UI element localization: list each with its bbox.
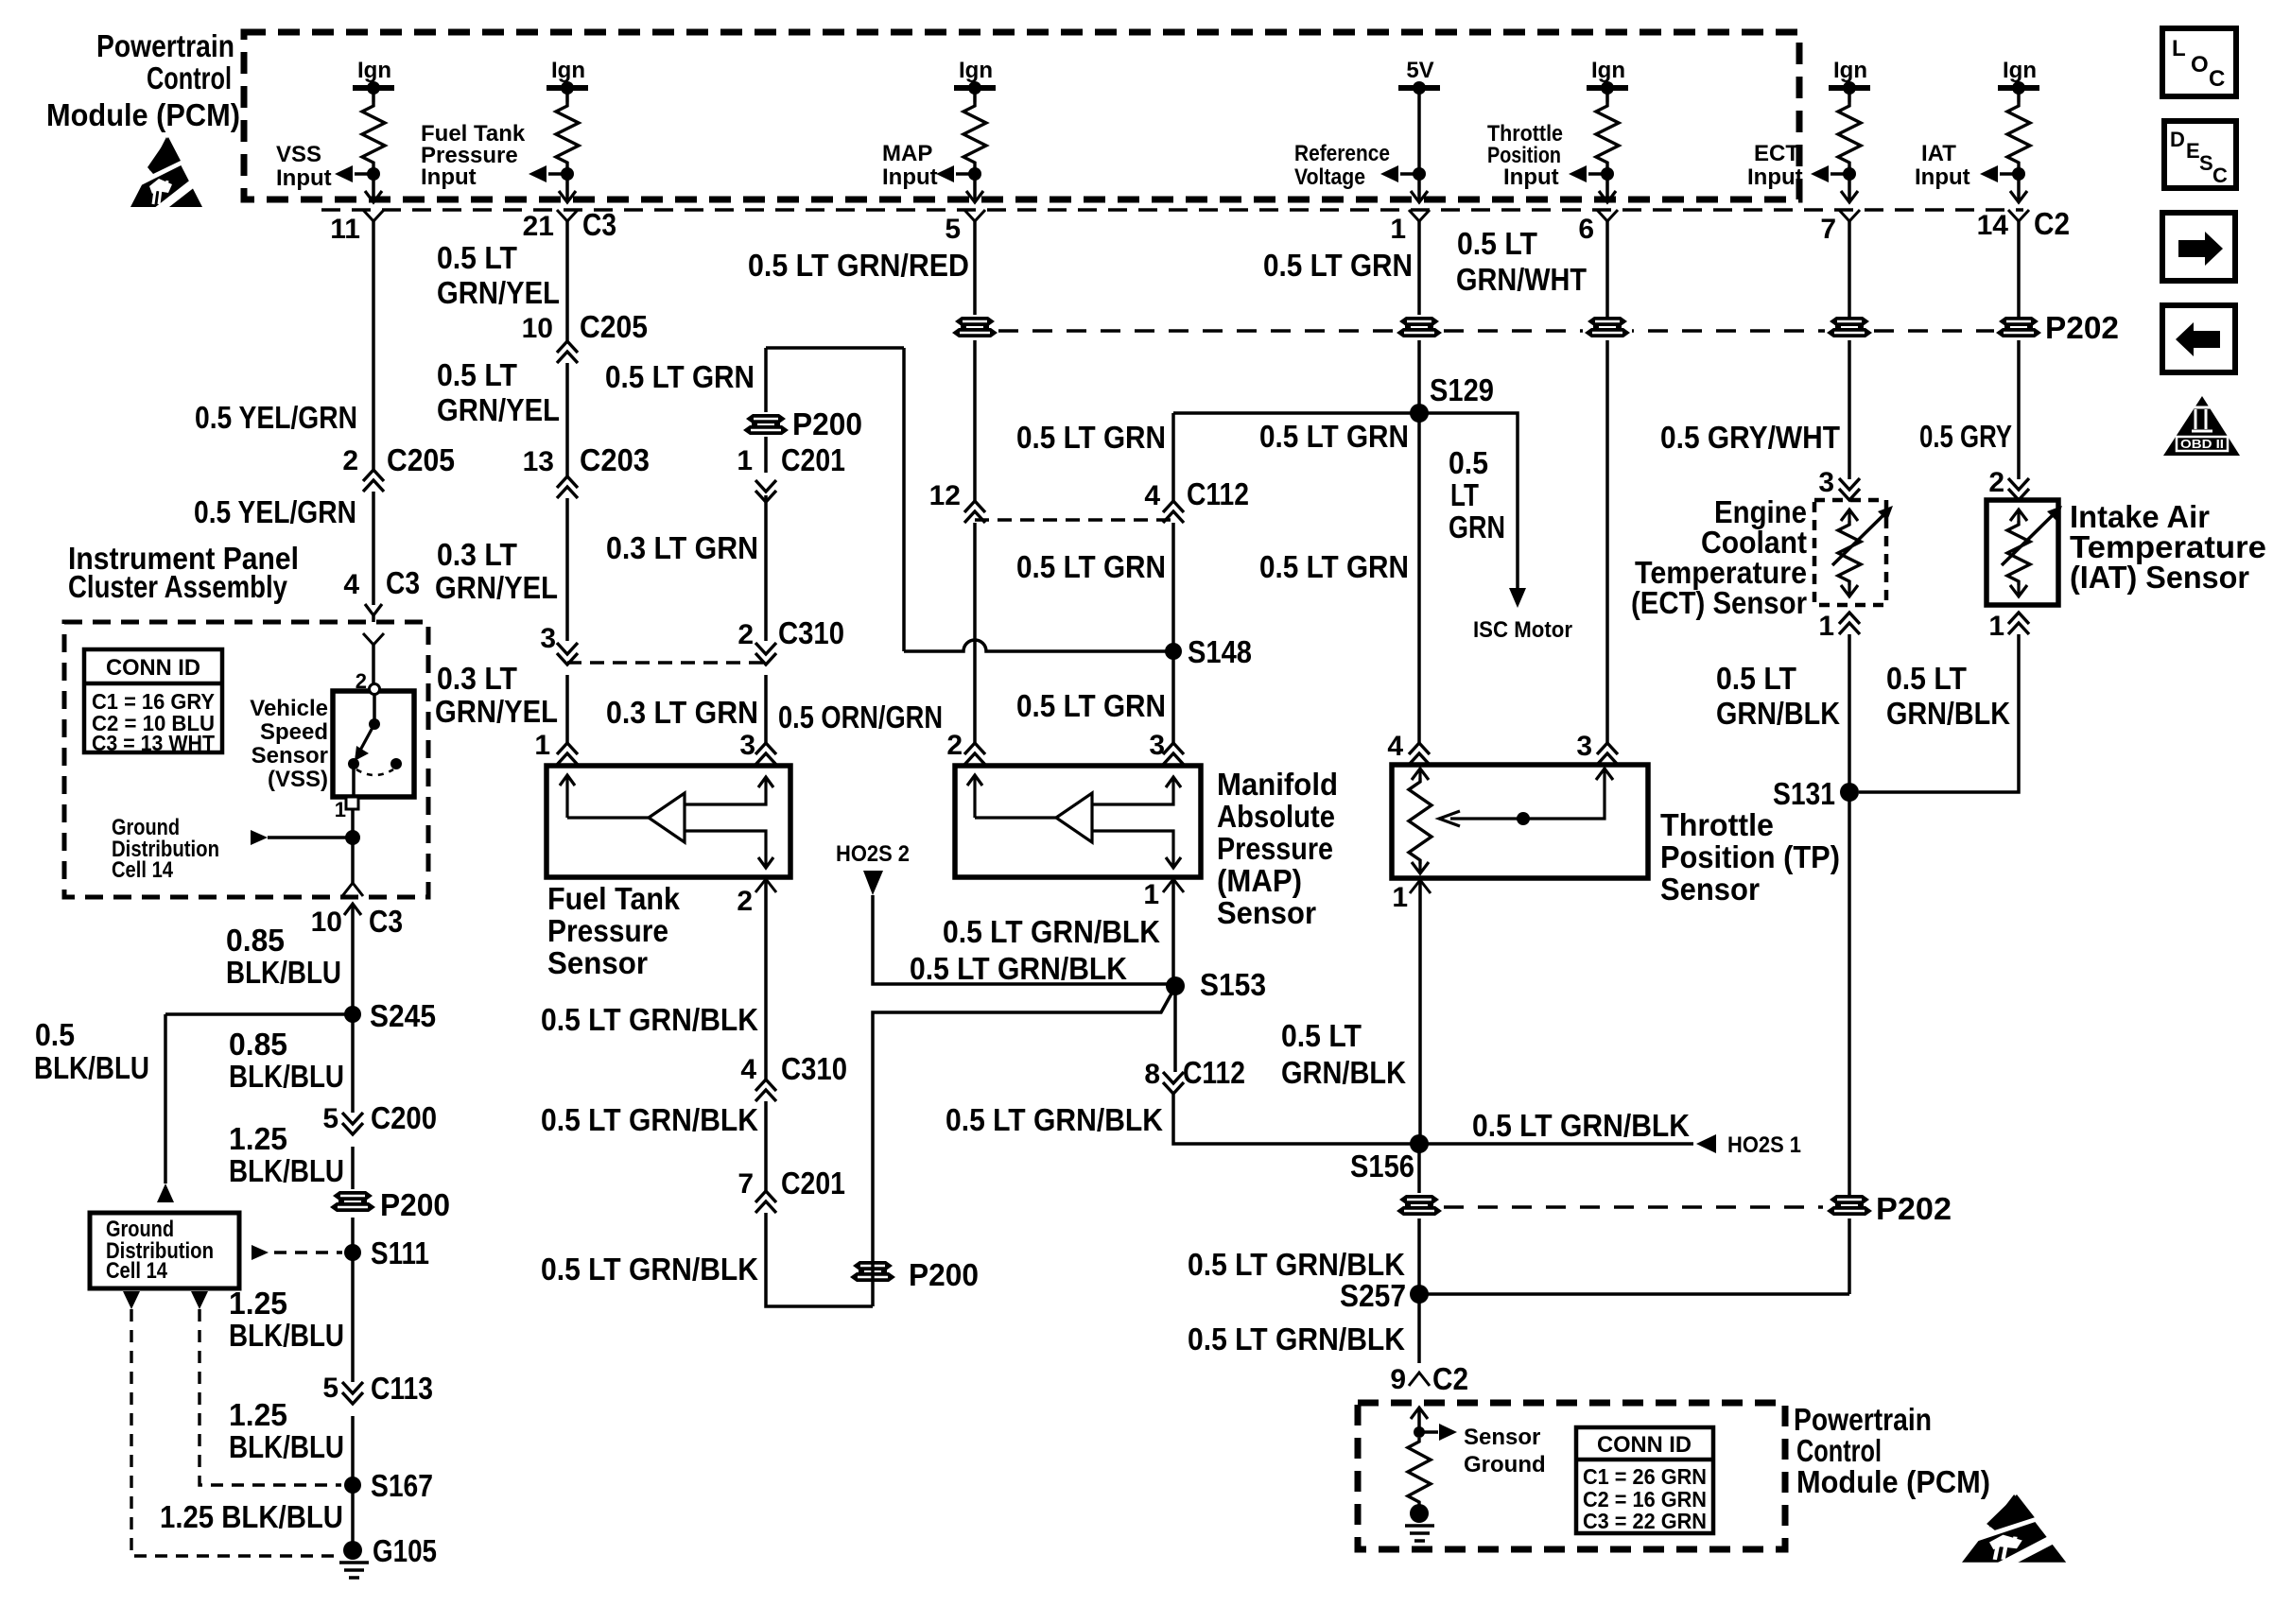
wire C112-8 to S156 corner: [1173, 1094, 1412, 1144]
CONN ID table header separator: [84, 682, 222, 686]
wire ECT col P202 to S257 row: [1848, 1218, 1851, 1294]
IAT sensor box: [1987, 500, 2058, 605]
svg-text:Ign: Ign: [357, 58, 391, 83]
inline connector C201 pin1: [755, 480, 776, 502]
grommet dashed line (TP to ECT): [1444, 329, 1825, 332]
svg-text:5: 5: [322, 1103, 338, 1134]
TP input circuit: branch to input arrow: [1588, 172, 1607, 176]
TP resistor top stub: [1418, 769, 1421, 778]
svg-text:C3 = 22 GRN: C3 = 22 GRN: [1583, 1509, 1707, 1533]
inline connector C112 pin8: [1163, 1072, 1184, 1094]
svg-text:Sensor: Sensor: [252, 743, 328, 769]
wire pin5 to P200: [973, 221, 977, 320]
svg-text:S111: S111: [371, 1235, 429, 1270]
PCM bottom module outline (dashed box): [1358, 1403, 1785, 1549]
Instrument Panel Cluster assembly (dashed box): [64, 622, 428, 897]
inline connector C112 pin4: [1163, 501, 1184, 523]
VSS input circuit: Ign node dot: [367, 81, 380, 95]
svg-text:C200: C200: [371, 1100, 437, 1135]
VSS input circuit: junction dot: [367, 167, 380, 181]
vehicle speed sensor switch box: [333, 691, 414, 797]
grommet P200 (left column): [328, 1189, 377, 1215]
wire TP pin1 to S156: [1418, 880, 1422, 1144]
svg-text:0.5 LT: 0.5 LT: [437, 240, 517, 275]
TP input circuit: stub above junction: [1605, 166, 1609, 199]
wire S129 to corner (left): [1173, 411, 1419, 415]
arrow into IPC at C3-4: [365, 604, 382, 615]
wire P200 to S111: [351, 1218, 355, 1253]
5V reference circuit: input arrow (left): [1380, 165, 1398, 182]
svg-text:1.25: 1.25: [229, 1121, 287, 1156]
svg-text:4: 4: [343, 569, 359, 600]
wire C205-2 to C3-4: [372, 492, 375, 605]
svg-text:1.25: 1.25: [229, 1397, 287, 1432]
Ground Distribution Cell 14 box: [90, 1213, 239, 1288]
svg-text:O: O: [2191, 52, 2209, 78]
svg-text:0.5 LT GRN: 0.5 LT GRN: [1259, 549, 1409, 584]
svg-text:Input: Input: [1747, 164, 1803, 190]
wire tap to IPC exit: [351, 838, 355, 883]
svg-text:0.5 LT GRN: 0.5 LT GRN: [1263, 248, 1413, 283]
svg-text:C205: C205: [387, 442, 455, 477]
svg-text:11: 11: [330, 214, 360, 245]
PCM connector face line (dashed): [321, 208, 2023, 211]
svg-text:2: 2: [737, 886, 753, 917]
svg-text:0.5 LT: 0.5 LT: [1716, 661, 1796, 696]
IAT thermistor bottom arrow: [2010, 585, 2027, 596]
svg-text:GRN/YEL: GRN/YEL: [435, 694, 558, 729]
DESC legend box: [2164, 121, 2236, 188]
TP resistor bottom stub: [1418, 864, 1421, 873]
5V reference circuit: 5V feed bar: [1398, 85, 1440, 91]
ground distribution tap arrow: [251, 830, 268, 845]
resistor MAP input circuit pull-up: [963, 102, 986, 166]
svg-text:C113: C113: [371, 1371, 433, 1406]
wire P200 riser to S153 corner: [873, 987, 1175, 1306]
VSS input circuit: input arrow (left): [335, 165, 353, 182]
IAT thermistor bottom stub: [2017, 585, 2020, 596]
svg-text:3: 3: [1149, 730, 1165, 761]
branch wire S245 to ground dist (left): [165, 1012, 353, 1016]
svg-text:CONN ID: CONN ID: [106, 655, 200, 681]
grommet P200 (MAP col): [950, 315, 999, 340]
wire P200 to C112-12: [973, 340, 977, 501]
svg-text:4: 4: [740, 1054, 756, 1085]
svg-text:C1 = 26 GRN: C1 = 26 GRN: [1583, 1464, 1707, 1489]
svg-text:Cell 14: Cell 14: [106, 1258, 168, 1284]
Fuel tank pressure input circuit: stub above junction: [565, 166, 569, 199]
FTP sensor internal symbol: [560, 775, 773, 868]
pin 7 terminal fork: [1839, 210, 1860, 221]
svg-text:E: E: [2186, 139, 2200, 163]
VSS input circuit: stub below Ign: [372, 88, 375, 102]
svg-text:GRN/WHT: GRN/WHT: [1456, 262, 1587, 297]
svg-text:1: 1: [737, 445, 753, 476]
svg-text:Sensor: Sensor: [1660, 872, 1760, 907]
svg-text:2: 2: [342, 445, 358, 476]
ECT input circuit: junction dot: [1843, 167, 1856, 181]
wire P202 to TP pin3: [1605, 340, 1609, 743]
TP input circuit: down arrow at PCM edge: [1599, 191, 1616, 202]
splice S129: [1410, 404, 1429, 423]
svg-text:1: 1: [335, 798, 346, 821]
svg-text:0.5 LT GRN: 0.5 LT GRN: [1016, 688, 1166, 723]
grommet P202 (5V col): [1395, 315, 1444, 340]
svg-text:Module (PCM): Module (PCM): [46, 97, 240, 132]
svg-text:8: 8: [1144, 1059, 1160, 1090]
svg-text:C310: C310: [781, 1051, 847, 1086]
svg-text:Position (TP): Position (TP): [1660, 839, 1840, 874]
svg-text:0.5 LT GRN/BLK: 0.5 LT GRN/BLK: [946, 1102, 1163, 1137]
svg-text:5: 5: [945, 214, 961, 245]
svg-text:C203: C203: [580, 442, 650, 477]
Manifold Absolute Pressure sensor box: [955, 766, 1201, 877]
splice S153: [1166, 976, 1185, 995]
prev-page arrow box (left): [2162, 305, 2235, 372]
VSS input circuit: down arrow at PCM edge: [365, 191, 382, 202]
wire C205-10 to C203-13: [565, 363, 569, 476]
resistor ECT input circuit pull-up: [1838, 102, 1861, 166]
TP input circuit: stub below Ign: [1605, 88, 1609, 102]
ground G105 symbol: [339, 1563, 369, 1578]
ground dist dashed drop arrow (left): [123, 1291, 140, 1309]
Fuel tank pressure input circuit: stub below Ign: [565, 88, 569, 102]
grommet dashed line (ECT to IAT): [1874, 329, 1994, 332]
S111 dashed tap arrow: [252, 1245, 269, 1260]
svg-text:S: S: [2199, 151, 2213, 175]
svg-text:Absolute: Absolute: [1217, 799, 1335, 834]
wire junction3 to FTP pin1: [565, 675, 569, 743]
svg-text:7: 7: [737, 1168, 754, 1200]
svg-text:VSS: VSS: [276, 142, 321, 167]
svg-text:0.5 LT: 0.5 LT: [1886, 661, 1967, 696]
svg-text:0.5 LT GRN/BLK: 0.5 LT GRN/BLK: [541, 1252, 758, 1287]
CONN ID table (PCM): [1576, 1427, 1713, 1533]
VSS switch arm: [356, 724, 374, 757]
wire MAP pin1 to S153: [1171, 879, 1175, 984]
svg-text:C112: C112: [1183, 1055, 1245, 1090]
svg-text:0.3 LT: 0.3 LT: [437, 537, 517, 572]
5V reference circuit: junction dot: [1413, 167, 1426, 181]
svg-text:GRN/YEL: GRN/YEL: [437, 275, 560, 310]
LOC legend box: [2162, 28, 2236, 96]
svg-text:0.3 LT GRN: 0.3 LT GRN: [606, 695, 758, 730]
svg-text:Sensor: Sensor: [547, 945, 648, 980]
wire S148 to MAP pin3: [1171, 651, 1175, 743]
wire VSS pin1 to ground-dist tap: [351, 809, 355, 838]
ESD warning symbol (top left): [130, 137, 202, 213]
ECT input circuit: Ign feed bar: [1829, 85, 1870, 91]
wire S129 to TP pin4: [1417, 413, 1421, 743]
wire S257 horizontal to ECT col: [1419, 1292, 1849, 1296]
connector at MAP pin 2: [964, 743, 985, 765]
ISC motor arrow: [1509, 588, 1526, 608]
svg-text:Fuel Tank: Fuel Tank: [547, 881, 681, 916]
ECT input circuit: input arrow (left): [1811, 165, 1829, 182]
inline connector C203 pin13: [557, 476, 578, 498]
MAP input circuit: branch to input arrow: [956, 172, 975, 176]
inline connector C113 pin5: [342, 1382, 363, 1404]
splice S111: [344, 1244, 361, 1261]
ground distribution tap dot: [345, 830, 360, 845]
inline connector C310 pin2: [755, 643, 776, 665]
wire HO2S2 to S153 corner: [873, 895, 1169, 984]
connector at FTP pin 1: [557, 743, 578, 765]
VSS switch arm arrowhead: [355, 746, 369, 761]
connector at IAT pin 1: [2008, 613, 2029, 634]
ECT input circuit: stub above junction: [1848, 166, 1851, 199]
svg-text:(IAT) Sensor: (IAT) Sensor: [2070, 560, 2249, 595]
svg-text:0.5: 0.5: [35, 1017, 75, 1052]
pin 6 terminal fork: [1597, 210, 1618, 221]
resistor Fuel tank pressure input circuit pull-up: [556, 102, 579, 166]
svg-text:14: 14: [1977, 210, 2009, 241]
svg-text:0.5 GRY: 0.5 GRY: [1919, 419, 2012, 454]
TP pin 1 fork: [1410, 880, 1431, 893]
wire C201-7 to P200 corner: [766, 1213, 873, 1306]
inline connector C205 pin2: [363, 470, 384, 492]
CONN ID table (IPC): [84, 649, 222, 752]
next-page arrow box (right): [2162, 213, 2235, 281]
MAP input circuit: stub below Ign: [973, 88, 977, 102]
svg-text:Speed: Speed: [260, 719, 328, 745]
inline connector at junction 3: [557, 643, 578, 665]
svg-text:C201: C201: [781, 1166, 845, 1201]
Throttle Position sensor box: [1392, 765, 1648, 878]
ECT thermistor top arrow: [1841, 510, 1858, 521]
svg-text:0.5: 0.5: [1449, 445, 1488, 480]
svg-text:0.5 LT GRN/BLK: 0.5 LT GRN/BLK: [541, 1002, 758, 1037]
resistor IAT input circuit pull-up: [2007, 102, 2030, 166]
sensor ground branch: [1419, 1430, 1438, 1434]
arrow into ground dist box: [157, 1183, 174, 1202]
ECT thermistor bottom arrow: [1841, 585, 1858, 596]
wire loop riser (x=956): [902, 348, 906, 651]
svg-text:ECT: ECT: [1754, 141, 1799, 166]
IAT input circuit: Ign feed bar: [1998, 85, 2039, 91]
resistor TP input circuit pull-up: [1596, 102, 1619, 166]
svg-text:LT: LT: [1450, 477, 1479, 512]
svg-text:C2: C2: [1432, 1361, 1468, 1396]
svg-text:Ign: Ign: [2003, 58, 2037, 83]
connector at MAP pin 3: [1163, 743, 1184, 765]
svg-text:G105: G105: [373, 1533, 437, 1568]
svg-text:ISC Motor: ISC Motor: [1473, 617, 1572, 643]
svg-text:0.5 ORN/GRN: 0.5 ORN/GRN: [778, 700, 943, 734]
splice S131: [1840, 783, 1859, 802]
grommet dashed line P202 bottom row: [1444, 1205, 1823, 1208]
dashed ground path to S167: [200, 1309, 341, 1485]
VSS switch: wire contact to pin1: [352, 764, 356, 797]
svg-text:2: 2: [946, 730, 963, 761]
wire pin7 to P202 (ECT): [1848, 221, 1851, 320]
svg-text:0.5 LT GRN: 0.5 LT GRN: [605, 359, 755, 394]
sensor ground branch arrow: [1439, 1424, 1457, 1441]
MAP input circuit: down arrow at PCM edge: [966, 191, 983, 202]
svg-text:Input: Input: [276, 165, 332, 191]
svg-text:1: 1: [1988, 611, 2004, 642]
svg-text:S129: S129: [1430, 372, 1494, 407]
VSS pin 2 terminal circle: [370, 684, 380, 695]
ECT sensor box (dashed): [1814, 500, 1886, 605]
svg-text:0.5 LT GRN: 0.5 LT GRN: [1016, 420, 1166, 455]
svg-text:HO2S 1: HO2S 1: [1727, 1132, 1801, 1158]
svg-text:Control: Control: [1796, 1433, 1882, 1468]
svg-text:S257: S257: [1340, 1278, 1406, 1313]
dashed connector line C112: [975, 518, 1173, 521]
svg-text:Pressure: Pressure: [1217, 831, 1333, 866]
IAT input circuit: stub above junction: [2017, 166, 2021, 199]
wire S131 to P202 (right): [1848, 792, 1851, 1195]
svg-text:Ign: Ign: [1591, 58, 1625, 83]
svg-text:L: L: [2172, 36, 2186, 61]
svg-text:2: 2: [737, 619, 754, 650]
svg-text:10: 10: [311, 907, 342, 938]
sensor ground resistor: [1408, 1438, 1431, 1506]
svg-text:GRN/BLK: GRN/BLK: [1886, 696, 2010, 731]
FTP pin 2 fork: [755, 879, 776, 892]
svg-text:(VSS): (VSS): [268, 767, 328, 792]
wire C310-4 to C201-7: [764, 1101, 768, 1191]
svg-text:S148: S148: [1188, 634, 1252, 669]
svg-text:C: C: [2209, 66, 2225, 92]
svg-text:0.5 LT GRN/BLK: 0.5 LT GRN/BLK: [1188, 1247, 1405, 1282]
svg-text:1: 1: [1392, 882, 1408, 913]
wire C200 to P200: [351, 1147, 355, 1189]
svg-text:OBD II: OBD II: [2180, 437, 2224, 451]
TP pin3 internal arrow: [1596, 769, 1613, 780]
wire S156 to HO2S1 arrow: [1419, 1142, 1693, 1146]
Fuel tank pressure input circuit: input arrow (left): [529, 165, 547, 182]
connector at FTP pin 3: [755, 743, 776, 765]
svg-text:0.5 GRY/WHT: 0.5 GRY/WHT: [1660, 420, 1840, 455]
dashed ground path to G105: [131, 1309, 341, 1556]
PCM pin 9 fork: [1409, 1373, 1430, 1386]
svg-text:Pressure: Pressure: [547, 913, 668, 948]
VSS switch pivot dot: [369, 718, 380, 730]
svg-text:S245: S245: [370, 998, 436, 1033]
svg-text:Control: Control: [147, 60, 232, 95]
TP resistor bottom arrow: [1412, 862, 1429, 873]
svg-text:Powertrain: Powertrain: [1794, 1402, 1932, 1437]
inline connector C112 pin12: [964, 501, 985, 523]
svg-text:BLK/BLU: BLK/BLU: [229, 1153, 344, 1188]
wire fork to VSS switch: [372, 645, 375, 683]
wire S153 to C112-8: [1173, 986, 1177, 1072]
svg-text:BLK/BLU: BLK/BLU: [226, 955, 341, 990]
svg-text:GRN/BLK: GRN/BLK: [1281, 1055, 1406, 1090]
connector at TP pin 4: [1409, 743, 1430, 765]
wire top loop (FTP pin3 branch): [766, 346, 904, 350]
splice S245: [344, 1006, 361, 1023]
prev-page arrow glyph: [2176, 322, 2220, 356]
svg-text:P202: P202: [2045, 310, 2119, 345]
inline connector at IAT pin 2: [2008, 478, 2029, 500]
svg-text:3: 3: [1576, 731, 1592, 762]
CONN ID table header separator (PCM): [1576, 1458, 1713, 1462]
svg-text:P202: P202: [1876, 1191, 1952, 1226]
inline connector C310 pin4: [755, 1080, 776, 1101]
svg-text:Ign: Ign: [551, 58, 585, 83]
svg-text:3: 3: [1818, 467, 1834, 498]
svg-text:1: 1: [534, 730, 550, 761]
VSS switch throw arc (dashed): [356, 769, 393, 775]
svg-text:0.5 LT GRN/RED: 0.5 LT GRN/RED: [748, 248, 969, 283]
VSS input circuit: Ign feed bar: [353, 85, 394, 91]
ECT thermistor diagonal arrow: [1832, 511, 1887, 565]
svg-text:3: 3: [739, 730, 755, 761]
grommet P200 (col B2): [741, 412, 790, 438]
wire S167 to G105: [351, 1485, 355, 1550]
VSS switch contact dot (left): [348, 758, 359, 769]
Fuel Tank Pressure Sensor box: [547, 766, 790, 877]
ECT thermistor resistor: [1838, 521, 1861, 585]
splice S167: [344, 1477, 361, 1494]
ECT thermistor bottom stub: [1848, 585, 1850, 596]
wire IAT pin1 to S131 corner: [1859, 634, 2019, 792]
sensor ground resistor stub: [1417, 1506, 1420, 1513]
svg-text:P200: P200: [909, 1257, 979, 1292]
svg-text:Voltage: Voltage: [1294, 164, 1365, 190]
svg-text:1.25: 1.25: [229, 1286, 287, 1321]
svg-text:Input: Input: [882, 164, 938, 190]
svg-text:CONN ID: CONN ID: [1597, 1432, 1692, 1458]
pin 21 terminal fork: [557, 210, 578, 221]
IPC entry terminal fork: [363, 633, 384, 645]
wire FTP pin2 to C310-4: [764, 879, 768, 1080]
svg-text:C201: C201: [781, 442, 845, 477]
svg-text:1: 1: [1390, 214, 1406, 245]
wire S129 corner to C112-4: [1171, 413, 1175, 501]
ground G105 dot: [343, 1541, 362, 1560]
5V reference circuit: 5V node dot: [1413, 81, 1426, 95]
resistor VSS input circuit pull-up: [362, 102, 385, 166]
grommet P202 (TP col): [1583, 315, 1632, 340]
svg-text:C205: C205: [580, 309, 648, 344]
connector at ECT pin 1: [1839, 613, 1860, 634]
svg-text:Throttle: Throttle: [1660, 807, 1774, 842]
sensor ground wire stub: [1417, 1408, 1421, 1432]
svg-text:0.5 LT GRN: 0.5 LT GRN: [1016, 549, 1166, 584]
svg-text:2: 2: [1988, 467, 2004, 498]
pin 5 terminal fork: [964, 210, 985, 221]
wire P202 to IAT-2: [2017, 340, 2021, 479]
svg-text:P200: P200: [792, 406, 862, 441]
wire pin1 to P202: [1417, 221, 1421, 320]
svg-text:(MAP): (MAP): [1217, 863, 1302, 898]
svg-text:C310: C310: [778, 615, 844, 650]
5V reference circuit: down arrow at PCM edge: [1411, 191, 1428, 202]
svg-text:Ground: Ground: [1464, 1452, 1546, 1477]
svg-text:0.85: 0.85: [229, 1027, 287, 1062]
Fuel tank pressure input circuit: branch to input arrow: [548, 172, 567, 176]
sensor ground entry arrow: [1411, 1408, 1428, 1419]
svg-text:9: 9: [1390, 1364, 1406, 1395]
svg-text:13: 13: [523, 446, 554, 477]
grommet P202 (S257 col): [1825, 1193, 1874, 1218]
svg-text:S156: S156: [1350, 1149, 1414, 1183]
connector at TP pin 3: [1597, 743, 1618, 765]
svg-text:IAT: IAT: [1921, 141, 1956, 166]
svg-text:4: 4: [1387, 731, 1403, 762]
IAT input circuit: input arrow (left): [1980, 165, 1998, 182]
svg-text:5: 5: [322, 1373, 338, 1404]
svg-text:C2: C2: [2034, 206, 2070, 241]
wire C310-2 to FTP pin3: [764, 675, 768, 743]
svg-text:0.85: 0.85: [226, 923, 285, 958]
IAT input circuit: branch to input arrow: [2000, 172, 2019, 176]
svg-text:C3: C3: [582, 207, 616, 242]
